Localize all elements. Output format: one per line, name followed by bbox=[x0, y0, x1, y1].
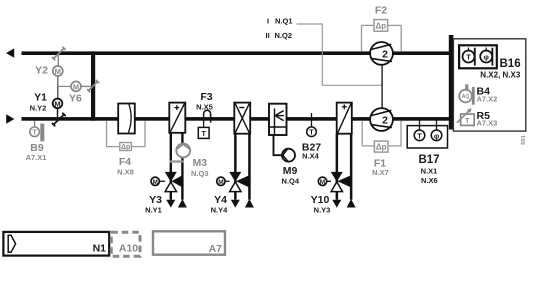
svg-text:T: T bbox=[201, 129, 206, 138]
svg-text:A7.X3: A7.X3 bbox=[477, 119, 498, 128]
label B9 bbox=[26, 142, 47, 162]
svg-text:M3: M3 bbox=[193, 157, 208, 169]
pipe arrows Y3 bbox=[166, 199, 187, 208]
label Y1 bbox=[30, 92, 48, 113]
extract air duct (top) bbox=[22, 51, 450, 55]
sensor B27 bbox=[307, 113, 317, 137]
svg-text:M: M bbox=[73, 82, 79, 91]
damper actuator Y6 bbox=[71, 81, 91, 91]
svg-text:Y4: Y4 bbox=[214, 194, 227, 206]
pipe arrows Y4 bbox=[231, 199, 254, 208]
humidifier bbox=[269, 104, 287, 135]
label Y2 bbox=[35, 65, 48, 77]
damper Y2 blade bbox=[52, 47, 65, 59]
label Y3 bbox=[145, 194, 162, 215]
pipe arrows Y10 bbox=[332, 199, 355, 208]
svg-text:T: T bbox=[417, 131, 422, 140]
svg-text:N.X2, N.X3: N.X2, N.X3 bbox=[480, 71, 521, 80]
svg-text:N.Y3: N.Y3 bbox=[314, 206, 331, 215]
outside sensors box bbox=[453, 39, 525, 131]
svg-text:T: T bbox=[465, 118, 470, 125]
svg-text:S01: S01 bbox=[521, 135, 527, 145]
svg-text:Δp: Δp bbox=[376, 143, 387, 152]
svg-text:Y3: Y3 bbox=[149, 194, 162, 206]
module A7 box bbox=[153, 231, 225, 255]
sensor B16 bbox=[459, 45, 497, 68]
module A10 box bbox=[111, 232, 140, 256]
svg-text:N.Q2: N.Q2 bbox=[275, 31, 293, 40]
svg-text:T: T bbox=[32, 130, 37, 137]
svg-text:N.Q3: N.Q3 bbox=[191, 169, 209, 178]
svg-text:I: I bbox=[267, 17, 269, 26]
svg-text:AQ: AQ bbox=[462, 94, 470, 100]
wire between fans bbox=[381, 65, 383, 109]
svg-text:2: 2 bbox=[382, 48, 388, 60]
label F2 bbox=[375, 4, 387, 16]
label B17 bbox=[418, 154, 439, 185]
sensor B17 bbox=[407, 121, 447, 149]
svg-text:T: T bbox=[309, 130, 314, 137]
room sensor R5 bbox=[457, 108, 474, 125]
svg-text:M: M bbox=[55, 67, 61, 76]
svg-text:N.X1: N.X1 bbox=[421, 166, 438, 175]
svg-text:N.X6: N.X6 bbox=[421, 176, 438, 185]
svg-text:Y1: Y1 bbox=[34, 92, 47, 104]
label F3 bbox=[196, 91, 213, 111]
svg-text:B16: B16 bbox=[500, 58, 521, 70]
pressure switch F4 bbox=[107, 121, 146, 151]
svg-text:N.X8: N.X8 bbox=[117, 167, 134, 176]
wire fan speed bbox=[297, 24, 383, 85]
label B27 bbox=[302, 142, 321, 161]
label F1 bbox=[372, 158, 389, 178]
sensor B9 bbox=[30, 121, 45, 142]
controller N1 box bbox=[3, 232, 109, 256]
outside air arrow bbox=[6, 114, 14, 123]
pump M3 bbox=[176, 144, 190, 158]
valve Y4 bbox=[217, 172, 250, 192]
svg-text:Δp: Δp bbox=[375, 22, 386, 31]
svg-text:Δp: Δp bbox=[121, 144, 130, 151]
svg-text:N.X7: N.X7 bbox=[372, 168, 389, 177]
label R5 bbox=[477, 110, 498, 127]
heating coil bbox=[169, 103, 185, 133]
svg-text:A7: A7 bbox=[209, 243, 223, 255]
pressure switch F2 bbox=[362, 20, 402, 52]
damper actuator Y1 bbox=[53, 99, 63, 118]
svg-text:φ: φ bbox=[484, 53, 490, 62]
svg-text:A7.X1: A7.X1 bbox=[26, 153, 47, 162]
exhaust fan bbox=[370, 42, 393, 65]
svg-text:M9: M9 bbox=[283, 165, 298, 177]
svg-text:M: M bbox=[54, 99, 60, 108]
svg-text:M: M bbox=[218, 179, 223, 186]
pressure switch F1 bbox=[362, 121, 401, 152]
pump M9 bbox=[274, 135, 296, 162]
fan speed labels bbox=[266, 17, 293, 40]
reheating coil bbox=[337, 103, 352, 134]
svg-text:B9: B9 bbox=[30, 142, 44, 154]
svg-text:2: 2 bbox=[382, 115, 388, 127]
damper Y6 blade bbox=[88, 80, 99, 91]
valve Y10 bbox=[318, 172, 351, 192]
reheating coil pipes bbox=[336, 134, 353, 200]
drawing id bbox=[521, 135, 527, 145]
label M3 bbox=[191, 157, 209, 178]
svg-text:B17: B17 bbox=[418, 154, 439, 166]
sensor B4 bbox=[459, 84, 474, 104]
wall bar bbox=[449, 35, 454, 130]
label B16 bbox=[480, 58, 521, 80]
svg-text:N.Y1: N.Y1 bbox=[145, 206, 162, 215]
damper Y1 blade bbox=[52, 113, 65, 125]
supply air duct (bottom) bbox=[22, 117, 454, 121]
svg-text:Y10: Y10 bbox=[311, 194, 330, 206]
svg-text:N.X5: N.X5 bbox=[196, 102, 213, 111]
cooling coil pipes bbox=[234, 134, 251, 200]
svg-text:Y6: Y6 bbox=[69, 93, 82, 105]
frost thermostat F3 bbox=[198, 110, 210, 138]
label Y4 bbox=[211, 194, 229, 215]
svg-text:II: II bbox=[266, 31, 270, 40]
svg-text:Y2: Y2 bbox=[35, 65, 48, 77]
svg-text:φ: φ bbox=[434, 131, 440, 140]
svg-text:A10: A10 bbox=[119, 243, 138, 255]
label Y6 bbox=[69, 93, 82, 105]
svg-text:A7.X2: A7.X2 bbox=[477, 95, 498, 104]
svg-text:N.Q1: N.Q1 bbox=[275, 17, 293, 26]
svg-text:N.Y4: N.Y4 bbox=[211, 206, 229, 215]
label M9 bbox=[282, 165, 300, 186]
svg-text:M: M bbox=[152, 179, 157, 186]
supply fan bbox=[370, 108, 393, 131]
valve Y3 bbox=[151, 172, 182, 192]
filter bbox=[118, 104, 135, 134]
svg-text:N1: N1 bbox=[93, 243, 107, 255]
svg-text:F2: F2 bbox=[375, 4, 387, 16]
exhaust air arrow bbox=[6, 48, 14, 57]
cooling coil bbox=[234, 103, 250, 134]
label Y10 bbox=[311, 194, 331, 215]
svg-text:N.Y2: N.Y2 bbox=[30, 104, 47, 113]
wire Y2-Y1 actuators bbox=[58, 77, 71, 99]
svg-text:M: M bbox=[320, 179, 325, 186]
svg-text:T: T bbox=[466, 53, 471, 62]
damper actuator Y2 bbox=[53, 54, 63, 76]
label B4 bbox=[477, 86, 498, 104]
svg-text:N.Q4: N.Q4 bbox=[282, 177, 300, 186]
label F4 bbox=[117, 156, 134, 176]
svg-text:N.X4: N.X4 bbox=[302, 151, 320, 160]
recirculation duct bbox=[91, 51, 95, 120]
heating coil pipes bbox=[170, 133, 184, 200]
